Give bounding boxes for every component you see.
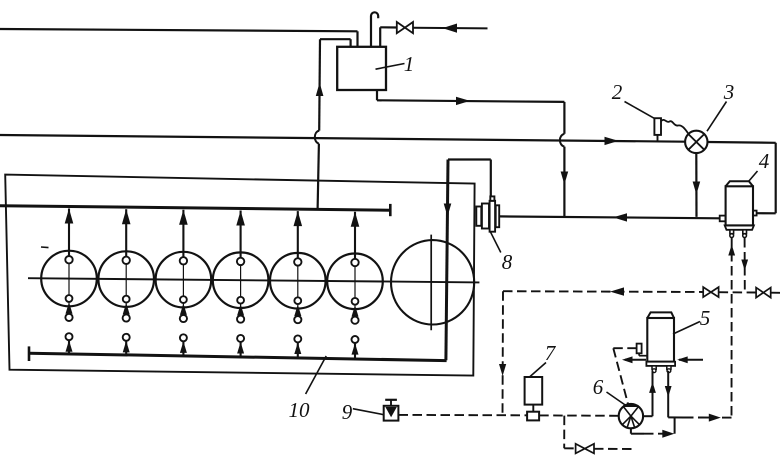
svg-text:2: 2 [612,80,623,104]
svg-text:8: 8 [502,250,513,274]
svg-text:6: 6 [593,375,604,399]
svg-text:3: 3 [723,80,735,104]
svg-text:5: 5 [700,306,711,330]
svg-text:9: 9 [342,400,353,424]
svg-text:1: 1 [404,52,415,76]
svg-text:10: 10 [289,398,311,422]
svg-text:7: 7 [545,341,557,365]
svg-text:4: 4 [759,149,770,173]
